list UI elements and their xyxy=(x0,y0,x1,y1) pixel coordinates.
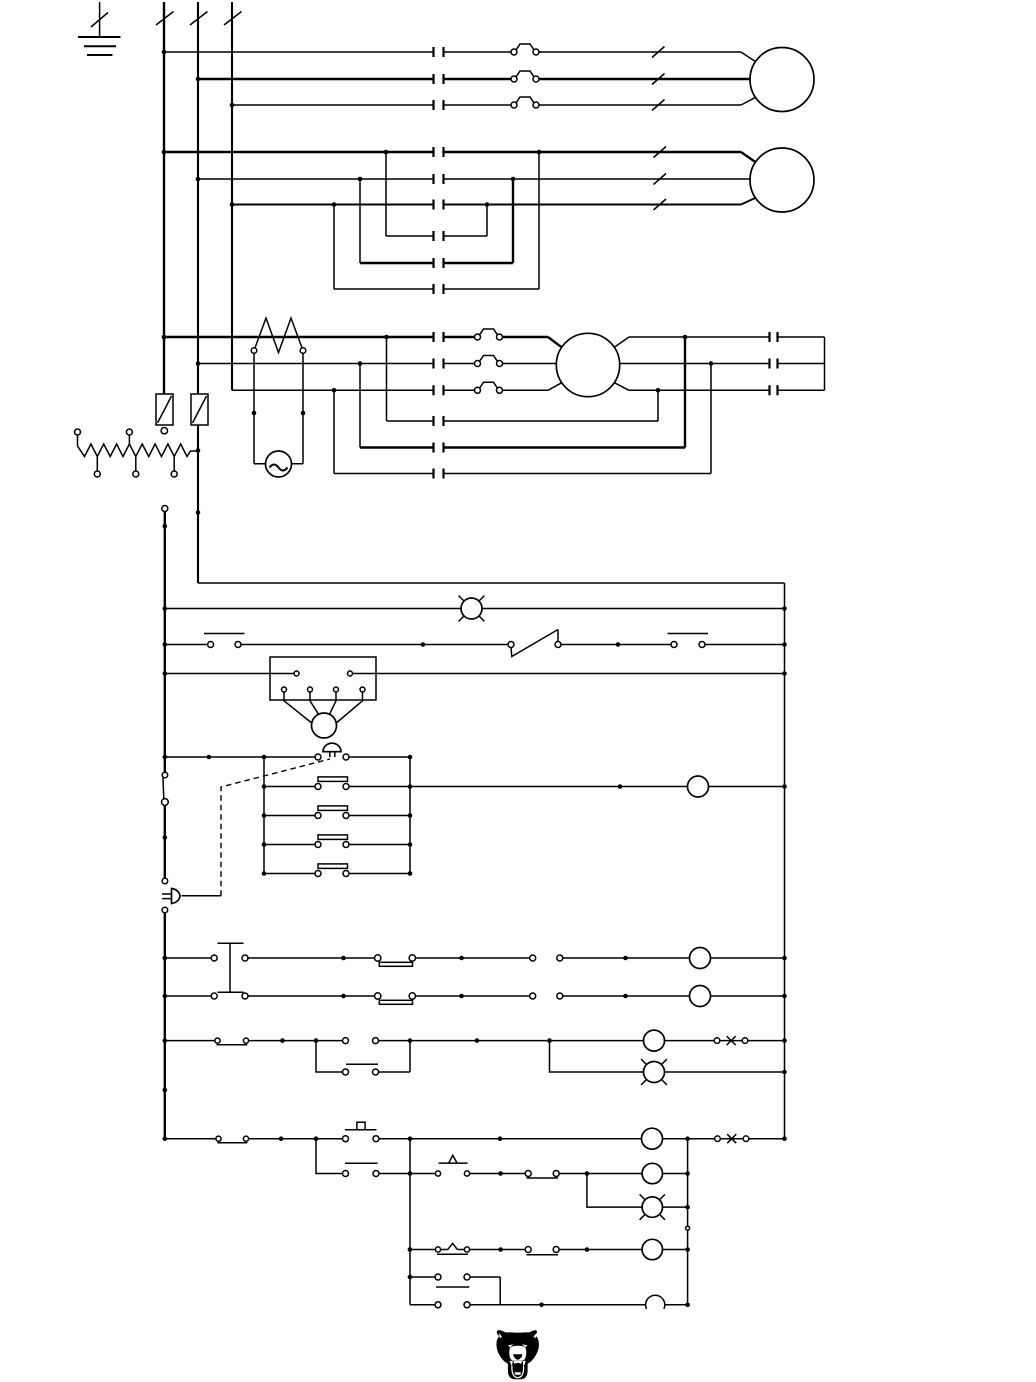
contact M3-H xyxy=(434,359,444,369)
contact M3-G xyxy=(434,332,444,342)
phase line L2 xyxy=(197,2,199,583)
contact M2-B fwd xyxy=(434,174,444,184)
junction dots rung K xyxy=(163,642,787,647)
bear logo xyxy=(496,1330,538,1379)
wire rung M xyxy=(165,756,410,758)
motor M1 xyxy=(750,48,814,112)
coil CR6 xyxy=(642,1163,662,1183)
terminal box row-right xyxy=(348,671,353,676)
wire foot switch link xyxy=(182,895,222,897)
pushbutton maintained V xyxy=(343,1122,380,1142)
junction dots motor3 xyxy=(162,335,714,416)
wire bank right vertical xyxy=(409,757,411,874)
pushbutton flag N xyxy=(315,777,349,790)
temperature contact W xyxy=(435,1155,469,1176)
coil CR2 xyxy=(690,948,711,969)
pushbutton NC PB1 xyxy=(204,634,245,648)
wire M3 secondary G xyxy=(614,337,824,347)
wire rung O xyxy=(264,815,410,817)
pilot motor timer xyxy=(312,713,337,738)
wire shorting bus xyxy=(824,337,826,390)
junction dots rung Q xyxy=(262,871,413,876)
wire rung V xyxy=(165,1138,785,1140)
timed contact W xyxy=(525,1171,559,1179)
fuse F2 xyxy=(191,394,208,425)
break slash M2-A xyxy=(654,147,667,158)
coil CR4 xyxy=(644,1030,665,1051)
heater element primary W xyxy=(254,318,303,353)
contact NO Z2 xyxy=(435,1302,470,1308)
junction dots rung W xyxy=(408,1171,690,1176)
junction dots rung Z2 xyxy=(539,1303,690,1308)
timed contact Y xyxy=(525,1247,559,1255)
wire heater drops xyxy=(254,353,303,463)
junction dots rung O xyxy=(262,813,413,818)
junction dots rung N xyxy=(262,784,787,789)
disconnect slash L2 xyxy=(190,12,208,26)
contact NC U xyxy=(343,1064,379,1075)
pushbutton flag O xyxy=(315,806,349,819)
node pilot right xyxy=(782,1070,787,1075)
contact NC-X T xyxy=(714,1036,748,1045)
contact M1-B xyxy=(434,74,444,84)
terminal box row-left xyxy=(294,671,299,676)
overload OL3-H xyxy=(475,356,503,367)
wire drop A to row D xyxy=(385,152,387,236)
motor M3 xyxy=(556,333,619,396)
contact M3-F2 xyxy=(434,469,444,479)
wire sub-ladder left rail xyxy=(409,1139,411,1305)
terminal resistor tap2 xyxy=(133,457,139,478)
node rail mid xyxy=(163,835,168,840)
wire bank left vertical xyxy=(263,757,265,874)
node resistor-L2 xyxy=(196,448,201,453)
contact shorting G xyxy=(770,332,778,342)
disconnect slash L1 xyxy=(156,12,174,26)
coil CR3 xyxy=(690,986,711,1007)
wire motor2 row B xyxy=(198,178,750,180)
wire L2 feed to right rail xyxy=(198,582,785,584)
wire motor3 row G xyxy=(164,337,562,347)
break slash M1-C xyxy=(652,100,665,111)
contact M2-D rev xyxy=(434,231,444,241)
contact M2-C fwd xyxy=(434,200,444,210)
knife switch SW1 xyxy=(508,630,561,657)
wire pilot branch W xyxy=(587,1174,688,1208)
wire rung P xyxy=(264,844,410,846)
contact NO T xyxy=(343,1038,379,1044)
pushbutton S contacts xyxy=(211,993,248,999)
temperature contact Y xyxy=(435,1243,469,1254)
contact NC-X V xyxy=(715,1134,749,1143)
contact M2-A fwd xyxy=(434,147,444,157)
wire motor1 phase C xyxy=(232,97,756,105)
wire rung L xyxy=(165,673,785,675)
wire drop I to F2 xyxy=(333,390,335,473)
pushbutton flag Q xyxy=(315,864,349,877)
pushbutton flag P xyxy=(315,835,349,848)
wire drop G to D2 xyxy=(386,337,388,421)
wire bypass U xyxy=(316,1041,410,1072)
pushbutton NC Z1 xyxy=(435,1274,470,1287)
wire rung S xyxy=(165,995,785,997)
solenoid coil Z2 xyxy=(646,1295,665,1309)
wire row D reverse xyxy=(386,205,487,237)
pilot light PL1 xyxy=(459,596,485,622)
break slash M1-A xyxy=(652,47,665,58)
wire rung Y xyxy=(410,1249,688,1251)
wire motor3 row H xyxy=(198,363,556,365)
wire rung T xyxy=(165,1040,785,1042)
ground xyxy=(78,2,121,55)
terminal resistor top-mid xyxy=(126,429,132,444)
junction dots rung V xyxy=(163,1136,787,1141)
wire drop B to row E xyxy=(359,179,361,263)
terminal box bottom 2 xyxy=(308,687,319,714)
wire row F2 xyxy=(334,364,711,474)
wire motor1 phase B xyxy=(198,78,750,80)
terminal box bottom 3 xyxy=(330,687,339,714)
node L2 below resistor xyxy=(196,510,201,515)
wire drop H to E2 xyxy=(359,364,361,448)
wire motor2 row C xyxy=(232,198,756,205)
terminal box bottom 1 xyxy=(282,687,312,723)
terminal inner rail xyxy=(686,1226,690,1230)
wire rung Z1 xyxy=(410,1277,500,1305)
terminal below fuse F1 xyxy=(161,428,167,434)
contact M1-A xyxy=(434,47,444,57)
overload contact T xyxy=(215,1038,249,1045)
mushroom head pushbutton PB3 xyxy=(315,743,349,760)
break slash M2-B xyxy=(654,174,667,185)
contact M3-I xyxy=(434,385,444,395)
terminal heater left xyxy=(251,348,257,354)
node L2 row2 xyxy=(196,77,201,82)
pushbutton operator I-bar xyxy=(218,943,244,992)
disconnect slash L3 xyxy=(224,12,242,26)
junction dots rung Y xyxy=(408,1247,690,1252)
mechanical dashed link xyxy=(221,759,330,896)
timed contact S xyxy=(375,993,416,1005)
pushbutton NC PB2 xyxy=(668,634,709,648)
terminal resistor tap3 xyxy=(171,457,177,478)
node left rail top xyxy=(163,524,168,529)
phase line L1 xyxy=(163,2,165,394)
overload OL3-I xyxy=(475,382,503,393)
contact shorting H xyxy=(770,359,778,369)
contact NC W xyxy=(343,1163,380,1176)
node L1 row1 xyxy=(162,50,167,55)
resistor tapped xyxy=(78,444,199,457)
wire rung R xyxy=(165,957,785,959)
wire rung W xyxy=(470,1173,688,1175)
contact M2-F rev xyxy=(434,284,444,294)
wire rung K xyxy=(165,644,785,646)
junction dots rung M xyxy=(163,755,413,760)
contact M1-C xyxy=(434,100,444,110)
junction dots rung R xyxy=(163,956,787,961)
coil CR1 xyxy=(688,776,709,797)
wire row F reverse xyxy=(334,152,539,289)
overload OL1-B xyxy=(511,71,539,82)
timed contact R xyxy=(375,955,416,967)
wire motor2 row A xyxy=(164,152,756,162)
break slash M1-B xyxy=(652,74,665,85)
coil CR7 xyxy=(642,1239,662,1259)
node rail lone xyxy=(163,1088,168,1093)
wire motor1 phase A xyxy=(164,52,756,62)
wire row E reverse xyxy=(360,179,513,263)
fuse F1 xyxy=(156,394,173,425)
contact M3-E2 xyxy=(434,443,444,453)
wire rung N xyxy=(264,786,785,788)
node pilot W right xyxy=(685,1205,690,1210)
AC bell xyxy=(266,451,292,477)
contact M2-E rev xyxy=(434,258,444,268)
wire rung Z2 xyxy=(410,1304,688,1306)
contact M3-D2 xyxy=(434,416,444,426)
overload OL1-C xyxy=(511,97,539,108)
wire M3 secondary I xyxy=(614,383,824,391)
right rail xyxy=(784,583,786,1139)
overload contact V xyxy=(216,1136,249,1143)
terminal resistor top-left xyxy=(75,429,81,446)
contact NO R xyxy=(530,955,563,961)
pilot light PL2 xyxy=(641,1059,667,1085)
rail contact upper xyxy=(162,772,169,805)
break slash M2-C xyxy=(654,199,667,210)
pushbutton R contacts xyxy=(211,955,248,961)
wire row D2 xyxy=(387,390,659,421)
terminal box bottom 4 xyxy=(336,687,365,723)
wire row E2 xyxy=(360,337,685,448)
drum controller box xyxy=(270,657,376,700)
node J left xyxy=(163,606,168,611)
junction dots rung L xyxy=(163,671,787,676)
wire bypass W xyxy=(316,1139,435,1174)
terminal resistor tap1 xyxy=(94,457,100,478)
terminal heater right xyxy=(300,348,306,354)
terminal control feed xyxy=(162,506,168,512)
rail contact lower foot switch xyxy=(162,878,180,913)
wire rung Q xyxy=(264,873,410,875)
pilot light PL3 xyxy=(640,1194,665,1219)
overload OL1-A xyxy=(511,44,539,55)
coil CR5 xyxy=(642,1128,663,1149)
contact shorting I xyxy=(770,385,778,395)
wire inner right rail xyxy=(687,1139,689,1305)
phase line L3 xyxy=(231,2,233,390)
junction dots rung S xyxy=(163,994,787,999)
left rail xyxy=(164,512,166,1140)
junction dots motor2 xyxy=(162,150,542,207)
wire M3 secondary H xyxy=(620,363,825,365)
junction dots rung T xyxy=(163,1038,787,1043)
junction dots rung P xyxy=(262,842,413,847)
motor M2 xyxy=(750,148,814,212)
contact NO S xyxy=(530,993,563,999)
node Z1 left xyxy=(408,1275,413,1280)
wire drop C to row F xyxy=(333,205,335,290)
wire motor3 row I xyxy=(232,383,562,391)
wire pilot branch T xyxy=(550,1041,785,1072)
wire rung J pilot light xyxy=(165,608,785,610)
overload OL3-G xyxy=(475,329,503,340)
node L3 row3 xyxy=(230,103,235,108)
node J right xyxy=(782,606,787,611)
